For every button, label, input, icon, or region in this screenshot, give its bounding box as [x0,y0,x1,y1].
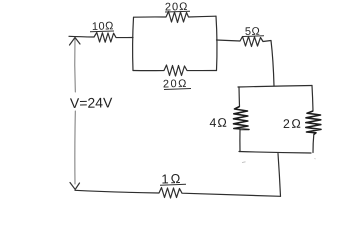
svg-text:V=24V: V=24V [70,94,113,111]
svg-text:1Ω: 1Ω [161,171,182,187]
svg-text:20Ω: 20Ω [163,78,188,91]
svg-text:4Ω: 4Ω [209,116,228,130]
svg-text:20Ω: 20Ω [165,1,189,14]
svg-text:2Ω: 2Ω [283,117,303,131]
svg-text:5Ω: 5Ω [245,26,261,38]
svg-text:10Ω: 10Ω [92,20,114,33]
